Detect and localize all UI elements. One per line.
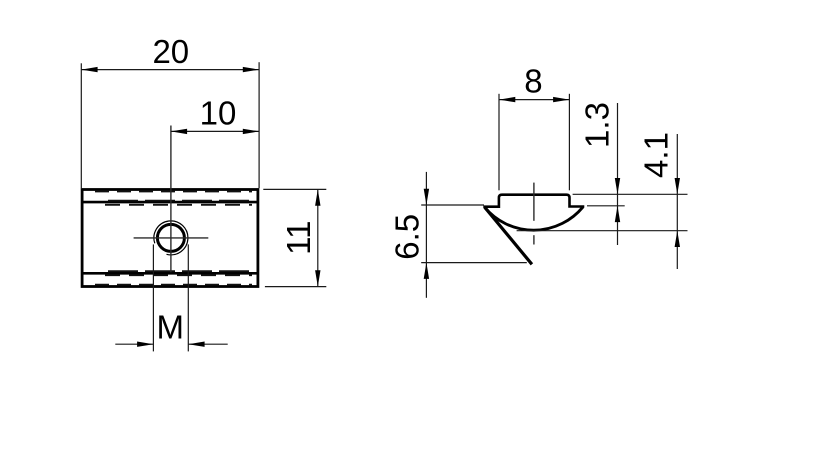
dimension text 1.3 (rotated) xyxy=(579,102,616,148)
spring leaf diagonal xyxy=(485,208,532,265)
top view outline (nut body rectangle) xyxy=(82,190,258,287)
side view profile top and steps xyxy=(485,195,583,207)
thread outer arc (3/4 circle) xyxy=(154,221,188,255)
vertical centerline of hole xyxy=(170,126,172,273)
dimension 20 line xyxy=(81,67,259,72)
hidden dashed line below upper inner line xyxy=(105,204,252,206)
dimension text 4.1 (rotated) xyxy=(637,132,674,178)
threaded hole inner circle xyxy=(157,224,184,251)
top view inner edge line upper xyxy=(82,201,258,204)
svg-text:20: 20 xyxy=(152,33,189,70)
svg-text:1.3: 1.3 xyxy=(579,102,616,148)
dimension 20 extension line right (shared with 10) xyxy=(258,62,260,188)
top view inner edge line lower xyxy=(82,272,258,275)
dimension text 6.5 (rotated) xyxy=(389,214,426,260)
hidden dashed line below top border xyxy=(95,191,252,193)
dimension text 10 xyxy=(200,95,237,132)
hidden dashed line below lower inner line xyxy=(105,274,252,276)
side view bottom arc xyxy=(485,207,583,230)
dimension M extension line left xyxy=(152,244,154,351)
dimension 6.5 line with outside arrows xyxy=(424,172,429,298)
side view centerline xyxy=(533,183,535,245)
dimension text 8 xyxy=(524,62,542,99)
dimension 8 line xyxy=(499,97,569,102)
dimension M line with outside arrows xyxy=(115,342,227,347)
dimension text 20 xyxy=(152,33,189,70)
hidden dashed line above lower inner line xyxy=(108,270,252,272)
flange level extension line xyxy=(587,205,625,207)
svg-text:6.5: 6.5 xyxy=(389,214,426,260)
dimension 1.3 line with outside arrows xyxy=(615,103,620,245)
hidden dashed line above bottom border xyxy=(95,284,252,286)
dimension text M xyxy=(157,309,185,346)
dimension 10 line xyxy=(171,129,259,134)
svg-text:4.1: 4.1 xyxy=(637,132,674,178)
svg-text:8: 8 xyxy=(524,62,542,99)
arc bottom extension line xyxy=(517,230,688,232)
6.5 top extension line xyxy=(421,204,484,206)
dimension 4.1 line with outside arrows xyxy=(675,134,680,269)
top edge extension line to right dims xyxy=(573,193,688,195)
svg-text:10: 10 xyxy=(200,95,237,132)
svg-text:11: 11 xyxy=(280,221,317,255)
horizontal centerline of hole xyxy=(134,237,209,239)
6.5 bottom extension line xyxy=(421,262,527,264)
dimension 11 extension line bottom xyxy=(265,286,326,288)
dimension 8 extension line left xyxy=(498,94,500,191)
dimension 8 extension line right xyxy=(568,94,570,191)
dimension 11 extension line top xyxy=(263,188,326,190)
svg-text:M: M xyxy=(157,309,185,346)
dimension 20 extension line left xyxy=(80,63,82,188)
dimension text 11 (rotated) xyxy=(280,221,317,255)
dimension M extension line right xyxy=(187,244,189,351)
hidden dashed line above upper inner line xyxy=(108,200,252,202)
dimension 11 line xyxy=(315,189,320,286)
